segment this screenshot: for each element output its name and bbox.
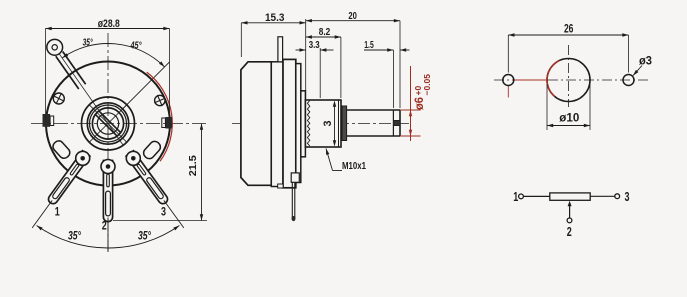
svg-text:21.5: 21.5 bbox=[187, 155, 199, 176]
right o3 hole bbox=[623, 75, 634, 86]
terminal 1 bbox=[519, 194, 524, 199]
boss step 2 bbox=[301, 91, 306, 157]
dimension o28.8 bbox=[45, 29, 47, 121]
radial line 45 deg for angle dimension bbox=[123, 62, 170, 109]
stop pin rivet bbox=[155, 95, 165, 105]
body outline circle o28.8 bbox=[46, 62, 170, 186]
shaft screwdriver slot bbox=[99, 111, 120, 132]
lower-left solder ear bbox=[51, 139, 72, 160]
svg-text:45°: 45° bbox=[130, 40, 142, 52]
svg-text:3: 3 bbox=[161, 205, 166, 219]
boss step 1 bbox=[296, 64, 301, 183]
dimension o10 bbox=[546, 84, 548, 130]
red centerline segment bbox=[248, 123, 274, 125]
radial line lug1 to arc bbox=[32, 200, 52, 228]
bushing face circles bbox=[82, 97, 135, 150]
radial line lug3 to arc bbox=[164, 200, 184, 228]
dimension 15.3 bbox=[240, 23, 242, 57]
terminal 2 bbox=[567, 218, 572, 223]
svg-text:M10x1: M10x1 bbox=[342, 160, 366, 172]
svg-text:ø28.8: ø28.8 bbox=[98, 18, 120, 30]
terminal lug 3 bbox=[126, 151, 167, 204]
centerline horizontal (side view) bbox=[232, 123, 409, 125]
dimension 26 bbox=[507, 35, 509, 73]
hidden shaft lines through hub bbox=[283, 116, 305, 118]
dimension 3 (bushing) bbox=[334, 103, 336, 144]
svg-text:3: 3 bbox=[625, 190, 630, 204]
dimension o6 red bbox=[400, 109, 421, 111]
wiper arrow bbox=[569, 205, 571, 218]
svg-text:1: 1 bbox=[55, 205, 60, 219]
dimension 20 bbox=[399, 21, 401, 108]
svg-text:35°: 35° bbox=[83, 36, 93, 48]
dimension 3.3 bbox=[319, 48, 321, 98]
centerline horizontal (template) bbox=[494, 79, 650, 81]
threaded bushing M10 bbox=[305, 100, 341, 147]
svg-text:35°: 35° bbox=[138, 231, 151, 243]
red arc on o10 hole bbox=[547, 61, 559, 97]
red centerline segment (template) bbox=[515, 79, 548, 81]
terminal pin down bbox=[291, 182, 293, 218]
back plate bbox=[283, 59, 296, 187]
terminal strip below bbox=[278, 184, 283, 188]
terminal 3 bbox=[615, 194, 620, 199]
svg-text:35°: 35° bbox=[68, 231, 81, 243]
centerline horizontal (front view) bbox=[31, 123, 207, 125]
svg-text:ø6: ø6 bbox=[412, 97, 426, 110]
red tick below left hole bbox=[507, 86, 509, 98]
left o3 hole bbox=[503, 75, 514, 86]
svg-text:3.3: 3.3 bbox=[309, 39, 320, 51]
shaft slot side view bbox=[392, 110, 394, 136]
thread serration bbox=[307, 101, 309, 147]
top angle dimension arc 35/45 bbox=[62, 43, 164, 66]
resistor body bbox=[550, 193, 590, 200]
svg-text:8.2: 8.2 bbox=[319, 26, 331, 38]
center o10 hole bbox=[547, 59, 590, 102]
svg-text:ø3: ø3 bbox=[639, 54, 652, 68]
terminal lug 2 bbox=[103, 161, 112, 222]
centerline vertical (front view) bbox=[107, 33, 109, 252]
svg-text:2: 2 bbox=[102, 219, 107, 233]
wire 1 to resistor bbox=[524, 195, 550, 197]
centerline diagonal NE-SW bbox=[89, 104, 127, 142]
svg-text:ø10: ø10 bbox=[559, 111, 579, 125]
shaft bbox=[347, 109, 400, 111]
svg-text:15.3: 15.3 bbox=[265, 12, 285, 24]
svg-text:2: 2 bbox=[567, 225, 572, 239]
can mid section bbox=[271, 62, 283, 187]
svg-text:20: 20 bbox=[348, 10, 357, 22]
lug radial centerline 35deg bbox=[55, 47, 124, 145]
svg-text:1: 1 bbox=[513, 190, 518, 204]
mounting lug top-left bbox=[63, 51, 86, 84]
svg-text:26: 26 bbox=[564, 22, 574, 36]
terminal lug 1 bbox=[48, 151, 89, 204]
mounting lug pin (top) bbox=[278, 37, 283, 62]
lower-right solder ear bbox=[142, 139, 163, 160]
dimension 8.2 bbox=[340, 37, 342, 98]
left stop pin rivet bbox=[53, 93, 64, 104]
washer bbox=[342, 106, 347, 141]
centerline diagonal NW-SE bbox=[89, 104, 127, 142]
wire resistor to 3 bbox=[590, 195, 615, 197]
dimension 1.5 bbox=[392, 50, 394, 108]
red rotated-lug ghost arc right side bbox=[147, 72, 173, 161]
dimension 21.5 bbox=[113, 220, 207, 222]
centerline vertical (big hole) bbox=[568, 45, 570, 107]
radial line lug2 to arc bbox=[107, 218, 109, 252]
svg-text:−0.05: −0.05 bbox=[422, 74, 432, 96]
bottom 35deg angle dimension arc bbox=[37, 225, 180, 248]
right anti-rotation tab bbox=[165, 117, 172, 129]
can (body) bbox=[241, 62, 271, 186]
svg-text:1.5: 1.5 bbox=[364, 39, 374, 51]
svg-text:3: 3 bbox=[322, 121, 334, 127]
left anti-rotation tab bbox=[43, 114, 51, 127]
